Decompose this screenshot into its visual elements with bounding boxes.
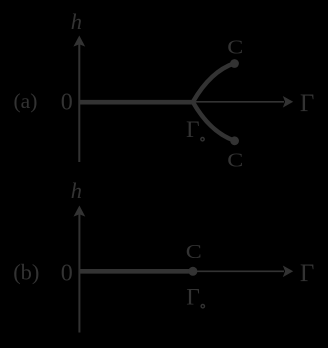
lower endpoint dot (a) <box>230 136 239 145</box>
panel (b) <box>74 206 294 333</box>
Gamma-axis arrowhead (a) <box>283 96 293 108</box>
Gamma-axis thin line (b) <box>193 270 284 272</box>
h-axis line (a) <box>78 44 80 162</box>
h-axis line (b) <box>78 214 80 333</box>
svg-text:0: 0 <box>61 261 73 287</box>
subscript ring (a) <box>201 138 204 141</box>
panel (a) <box>73 36 293 163</box>
svg-text:Γ: Γ <box>186 117 200 143</box>
svg-text:Γ: Γ <box>300 260 314 287</box>
thick zero-field segment (b) <box>79 269 193 274</box>
upper endpoint dot (a) <box>230 59 239 68</box>
svg-text:C: C <box>227 36 243 58</box>
svg-text:C: C <box>227 150 243 172</box>
svg-text:0: 0 <box>61 90 73 116</box>
h-axis arrowhead (a) <box>73 36 85 47</box>
svg-text:(b): (b) <box>13 259 39 284</box>
critical endpoint dot (b) <box>188 267 197 276</box>
svg-text:(a): (a) <box>14 89 38 113</box>
svg-text:h: h <box>71 9 82 34</box>
subscript ring (b) <box>201 305 204 308</box>
lower bifurcation curve (a) <box>193 102 235 141</box>
svg-text:C: C <box>186 241 202 263</box>
svg-text:h: h <box>71 178 82 203</box>
upper bifurcation curve (a) <box>193 63 234 102</box>
h-axis arrowhead (b) <box>74 206 86 217</box>
svg-text:Γ: Γ <box>300 90 314 117</box>
Gamma-axis thin line (a) <box>193 101 284 103</box>
thick zero-field segment (a) <box>79 100 193 105</box>
svg-text:Γ: Γ <box>186 285 200 311</box>
Gamma-axis arrowhead (b) <box>283 266 293 278</box>
